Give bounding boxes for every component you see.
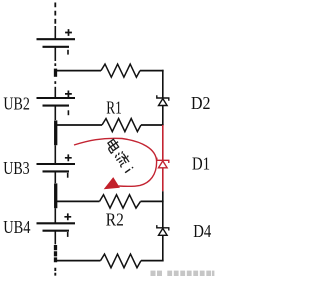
wire: red segment D1 down to y191 bbox=[162, 168, 164, 192]
svg-text:D1: D1 bbox=[192, 153, 210, 173]
glyph 电 bbox=[105, 138, 121, 153]
junction bar at node D (dashed thick) bbox=[54, 245, 57, 262]
wire: left bus dash-dot continuation at top edge bbox=[54, 3, 56, 26]
wire: top row left lead (node A to resistor) bbox=[55, 70, 101, 72]
left bus dotted continuation at bottom bbox=[54, 268, 56, 276]
label 电流i (hand-drawn glyphs, rotated) bbox=[105, 138, 135, 173]
wire: bottom row right lead to right bus corner bbox=[141, 260, 164, 262]
battery UB2 short plate bbox=[43, 105, 70, 107]
svg-text:D2: D2 bbox=[191, 93, 211, 113]
glyph i bbox=[125, 167, 133, 172]
wire: top row right lead to right bus corner bbox=[140, 70, 164, 72]
battery UB4 short plate bbox=[43, 230, 70, 232]
wire: right bus from top corner down to D2 bbox=[162, 70, 164, 98]
wire: left bus down to battery UB4 bbox=[54, 208, 56, 223]
current arrowhead (red) bbox=[105, 178, 120, 189]
svg-text:D4: D4 bbox=[193, 221, 211, 241]
junction bar at node A bbox=[54, 69, 57, 77]
wire: R1 row right lead to right bus bbox=[141, 124, 164, 126]
battery UB1 (partial, top) long plate bbox=[37, 38, 76, 40]
wire: left bus UB3 to node C bbox=[54, 171, 56, 183]
wire: right bus R1 node to D1 (red segment) bbox=[162, 125, 164, 160]
wire: bottom row left lead (node D to resistor) bbox=[55, 260, 100, 262]
battery UB4 long plate bbox=[37, 222, 76, 224]
resistor bottom bbox=[101, 254, 142, 268]
battery UB1 plus sign bbox=[65, 29, 72, 36]
battery UB2 minus tick bbox=[67, 110, 69, 115]
battery UB3 plus sign bbox=[65, 154, 72, 161]
resistor R2 bbox=[100, 195, 141, 208]
svg-text:UB3: UB3 bbox=[3, 158, 30, 178]
battery UB2 long plate bbox=[37, 97, 76, 99]
battery UB4 minus tick bbox=[67, 232, 69, 237]
junction bar at node B bbox=[54, 120, 57, 145]
battery UB1 minus tick bbox=[67, 50, 69, 55]
wire: right bus D2 to R1 row node bbox=[162, 106, 164, 126]
zener diode D4 triangle bbox=[159, 228, 168, 235]
battery UB4 plus sign bbox=[64, 213, 71, 220]
wire: left bus down to battery UB1 bbox=[54, 26, 56, 39]
wire: left bus UB4 to node D bbox=[54, 231, 56, 245]
wire: left bus down to battery UB3 bbox=[54, 145, 56, 164]
svg-text:UB2: UB2 bbox=[3, 94, 30, 114]
wire: right bus D4 down to bottom corner bbox=[162, 235, 164, 261]
wire: left bus down to battery UB2 bbox=[54, 87, 56, 98]
svg-text:R1: R1 bbox=[106, 98, 122, 118]
battery UB3 long plate bbox=[37, 163, 76, 165]
current loop arc (red) bbox=[74, 138, 157, 186]
svg-text:R2: R2 bbox=[106, 210, 124, 230]
battery UB3 short plate bbox=[43, 170, 70, 172]
zener diode D2 cathode bar with hooks bbox=[157, 95, 169, 100]
zener diode D4 cathode bar with hooks bbox=[157, 225, 169, 230]
watermark (bottom right, gray) bbox=[151, 271, 215, 276]
wire: R1 row left lead (node B to resistor) bbox=[55, 124, 102, 126]
wire: R2 row left lead (node C to resistor) bbox=[55, 200, 99, 202]
battery UB1 short plate bbox=[43, 46, 70, 48]
wire: right bus down to D4 bbox=[162, 191, 164, 228]
svg-text:UB4: UB4 bbox=[3, 217, 30, 237]
battery UB3 minus tick bbox=[67, 173, 69, 178]
battery UB2 plus sign bbox=[65, 91, 72, 98]
resistor R1 bbox=[102, 119, 141, 132]
wire: R2 row right lead to right bus bbox=[141, 200, 164, 202]
wire: left bus UB2 to node B bbox=[54, 106, 56, 120]
zener diode D2 triangle bbox=[159, 99, 168, 106]
resistor top (between UB1/UB2 tap and right bus) bbox=[101, 64, 140, 77]
junction bar at node C bbox=[54, 183, 57, 208]
glyph 流 bbox=[114, 149, 132, 167]
wire: left bus UB1 to node A (dash-dot with junction bar) bbox=[54, 47, 56, 61]
zener diode D1 (red) cathode bar with hooks bbox=[157, 158, 169, 163]
zener diode D1 (red) triangle bbox=[159, 161, 168, 168]
